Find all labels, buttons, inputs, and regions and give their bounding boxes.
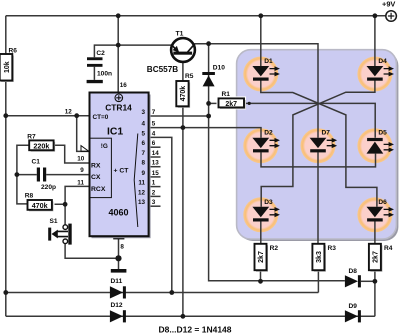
svg-text:9: 9 [80,167,84,174]
svg-text:D4: D4 [378,58,387,65]
LED D5 symbol (inverted) [367,130,395,154]
node R1 wire small [248,102,251,105]
wire R7 left to R8 left [17,145,29,204]
diode D10 [202,64,225,86]
resistor R7 [27,134,55,152]
svg-text:R1: R1 [222,91,231,98]
svg-text:BC557B: BC557B [147,65,178,74]
LED D6 symbol [367,199,395,222]
wire R5 bottom long vertical [182,106,184,316]
wire rail to D1 [260,16,262,66]
wire T1 collector to D7 [195,44,319,138]
wire T1 base left lead [118,44,172,46]
svg-text:D8...D12 = 1N4148: D8...D12 = 1N4148 [159,324,232,333]
output bracket [134,134,138,228]
wire pin4 down to D11 run [149,137,172,292]
svg-text:16: 16 [120,82,128,89]
svg-text:D9: D9 [349,303,358,310]
LED D4 circle [357,57,392,92]
resistor R1 [217,91,247,109]
svg-text:D3: D3 [264,199,273,206]
IC1 pin 8 tab [113,236,124,239]
svg-text:5: 5 [141,130,145,137]
svg-text:D1: D1 [264,58,273,65]
node rail/pin12 [3,113,8,118]
svg-text:R2: R2 [270,245,279,252]
capacitor C1 [32,159,57,191]
node T1 base / C2 [116,43,121,48]
ground under C2 [87,80,103,83]
LED D6 circle [357,197,392,232]
svg-text:R3: R3 [328,245,337,252]
svg-text:3: 3 [141,109,145,116]
LED D2 circle [243,128,278,163]
wire D11 run [6,292,319,294]
wire R1 left [209,102,219,104]
wire pin7 [149,115,209,117]
resistor R3 [312,244,336,272]
svg-text:!G: !G [101,143,108,150]
LED D7 circle [301,128,336,163]
wire D1 bottom diagonal to D6 top [261,81,377,207]
ground under IC [111,269,127,273]
wire pin5 to D2 top [149,128,261,138]
IC right internal pin numbers [138,109,146,206]
node rail/pin16 [116,13,121,18]
IC1 power circle [115,94,123,102]
LED D2 symbol [252,130,280,153]
wire pin13 stub [149,166,161,168]
svg-text:12: 12 [65,108,73,115]
svg-text:+9V: +9V [382,0,395,8]
wire R1 right to D5 top [244,103,375,137]
LED panel [237,50,397,239]
IC1 4060 body [90,93,151,239]
wire R7 right to RX pin10 [54,145,90,163]
svg-text:CX: CX [91,174,101,181]
wire C1 to CX pin9 [17,174,90,176]
node rail/D4 [373,13,378,18]
svg-text:13: 13 [138,199,146,206]
svg-text:D11: D11 [111,278,123,285]
svg-text:CTR14: CTR14 [105,103,132,113]
svg-text:10k: 10k [4,61,11,73]
svg-text:R5: R5 [185,73,194,80]
wire pin15 stub [149,176,161,178]
wire pin2 stub [149,195,161,197]
resistor R5 [176,73,193,108]
wire D2 bottom to D5 bottom [261,152,376,167]
wire pin3 stub [149,205,161,207]
node rail/D1 [258,13,263,18]
IC right external pin numbers [152,109,160,206]
wire pin1 stub [149,186,161,188]
svg-text:T1: T1 [176,30,184,37]
node D10 / pin7 [206,114,211,119]
wire riser D9 to D8 junction [374,281,376,316]
svg-text:R8: R8 [25,192,34,199]
svg-text:14: 14 [152,150,160,157]
svg-text:CT=0: CT=0 [93,114,109,121]
diode D9 [345,303,361,322]
wire D4 bottom diagonal to D3 top [261,81,375,207]
svg-text:220k: 220k [33,141,49,150]
wire pin12 branch to oscillator wedge [77,116,90,152]
svg-text:2: 2 [152,189,156,196]
wire R4 bottom [374,270,376,281]
node S1 wire / IC ground [115,255,121,261]
svg-text:D8: D8 [349,268,358,275]
node left rail / D11 run [3,290,8,295]
oscillator sub-box [90,138,112,197]
wire R5 top to T1 base [182,55,184,82]
node R8 / S1 [63,202,68,207]
wire pin12 CT=0 [6,115,90,117]
+9V terminal [382,0,396,21]
svg-text:7: 7 [141,150,145,157]
wire bottom D12 run [6,315,375,317]
wire D3 bottom to R2 [260,221,262,244]
wire D8 cathode to R4 bottom [361,280,375,282]
LED D1 symbol [252,58,280,81]
wire pin16 from rail [117,16,119,93]
node R2 / run A [258,279,263,284]
resistor R6 [0,48,17,82]
node pin12 branch [74,113,79,118]
svg-text:6: 6 [141,140,145,147]
svg-text:D2: D2 [264,130,273,137]
svg-text:13: 13 [152,160,160,167]
wire top +9V rail [6,15,386,17]
svg-text:100n: 100n [97,71,112,78]
wire IC pin8 to ground [118,236,120,269]
diode D11 [110,278,126,298]
wire pin14 stub [149,156,161,158]
svg-text:+ CT: + CT [114,167,130,174]
svg-text:5: 5 [152,121,156,128]
resistor R8 [25,192,54,211]
node pin4 / D11 run [169,290,174,295]
svg-text:IC1: IC1 [107,127,123,138]
wire D6 bottom to R4 [374,221,376,244]
svg-text:1: 1 [152,180,156,187]
svg-text:C2: C2 [96,50,105,57]
svg-text:220p: 220p [41,184,56,191]
node D10 / R1 [206,101,211,106]
LED D4 symbol [367,58,395,81]
node R5 line / D12 run [181,314,186,319]
svg-text:D6: D6 [378,199,387,206]
svg-text:9: 9 [141,170,145,177]
wire RCX pin11 to R8 and S1 [55,186,90,224]
node D10 top [206,41,211,46]
svg-text:D5: D5 [378,130,387,137]
svg-text:R4: R4 [384,245,393,252]
svg-text:10: 10 [77,155,85,162]
LED D3 symbol [252,199,280,222]
wire C2 branch [94,45,118,80]
svg-text:8: 8 [120,244,124,251]
LED D3 circle [243,197,278,232]
LED D7 symbol [310,130,338,153]
svg-text:11: 11 [138,180,145,187]
wire left rail [5,16,7,317]
resistor R4 [369,244,393,272]
node R5 / pin5 [181,125,186,130]
svg-text:R7: R7 [27,134,36,141]
svg-text:D10: D10 [213,64,225,71]
svg-text:D12: D12 [111,302,123,309]
svg-text:6: 6 [152,140,156,147]
resistor R2 [255,244,279,272]
svg-text:8: 8 [141,160,145,167]
wire S1 bottom to IC ground [65,244,118,259]
wire D7 bottom to R3 [317,152,319,244]
svg-text:15: 15 [152,170,160,177]
svg-text:D7: D7 [322,130,331,137]
switch S1 [48,218,72,245]
svg-text:2k7: 2k7 [225,101,237,108]
diode D12 [110,302,126,322]
svg-text:2k7: 2k7 [258,251,265,263]
svg-text:12: 12 [138,189,146,196]
wire D10 vertical down to bottom run A [209,44,345,281]
node C1 left [15,172,20,177]
svg-text:R6: R6 [9,48,18,55]
svg-text:S1: S1 [50,218,58,225]
LED panel shadow [239,52,399,241]
wire pin6 stub [149,146,161,148]
diode D8 [345,268,361,287]
svg-text:4060: 4060 [108,208,128,218]
svg-text:RX: RX [91,163,101,170]
svg-text:4: 4 [152,130,156,137]
wire R2 bottom [260,270,262,281]
svg-text:470k: 470k [180,86,187,102]
svg-text:11: 11 [77,179,84,186]
svg-text:7: 7 [152,109,156,116]
wire R3 bottom to D11 run [317,270,319,292]
capacitor C2 [87,50,112,78]
node D8 / R4 [373,279,378,284]
wire rail to D4 [374,16,376,66]
oscillator wedge [81,146,89,152]
svg-text:C1: C1 [32,159,41,166]
svg-text:470k: 470k [32,201,48,210]
svg-text:2k7: 2k7 [372,251,379,263]
svg-text:4: 4 [141,121,145,128]
transistor T1 [147,30,195,74]
svg-text:RCX: RCX [91,186,106,193]
LED D5 circle [357,128,392,163]
LED D1 circle [243,57,278,92]
svg-text:3k3: 3k3 [316,251,323,263]
svg-text:3: 3 [152,199,156,206]
